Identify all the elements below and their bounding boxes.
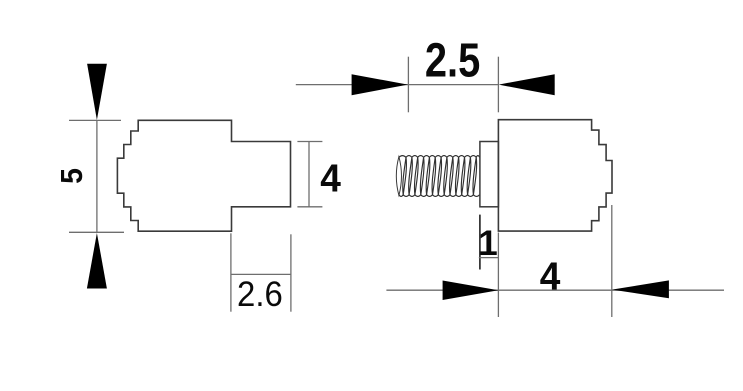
head outline (side view with knurl steps) [498, 120, 612, 231]
dimension 4 (head width) right arrow [612, 280, 669, 298]
svg-text:1: 1 [478, 224, 497, 263]
dimension 1 extension line (collar left edge) [479, 215, 481, 270]
dimension 2.6 right extension line [290, 234, 292, 311]
dimension 5 arrow top [87, 64, 107, 120]
svg-text:2.5: 2.5 [425, 34, 480, 87]
dimension 5 arrow bottom [87, 233, 107, 289]
threaded stud end face [396, 157, 401, 196]
thread crest lines [399, 156, 480, 197]
dimension 2.6 left extension line [230, 233, 232, 311]
svg-text:4: 4 [540, 255, 561, 298]
svg-text:5: 5 [55, 168, 89, 184]
dimension 4 (head width) left arrow [443, 281, 499, 301]
collar (unthreaded shoulder) outline [480, 142, 499, 207]
dimension 4 (boss height) bottom extension line [297, 206, 322, 208]
dimension 4 (boss height) top extension line [297, 141, 322, 143]
dimension 4 (boss height) dimension line [308, 142, 310, 207]
dimension 4 (head width) left extension line [497, 233, 499, 318]
dimension 4 (head width) dimension line [386, 289, 724, 291]
dimension 2.6 dimension line [231, 273, 291, 275]
dimension 5 bottom tick line [69, 231, 124, 233]
dimension 2.5 right extension line [497, 57, 499, 113]
dimension 1 dimension line [479, 257, 499, 259]
svg-text:2.6: 2.6 [237, 275, 283, 314]
dimension 2.5 dimension line with left tail [296, 84, 499, 86]
dimension 2.5 left extension line [407, 57, 409, 113]
dimension 2.5 right arrow [499, 74, 555, 95]
left view outline (front view of stepped knob with boss) [117, 120, 290, 231]
dimension 5 dimension line [96, 120, 98, 232]
dimension 4 (head width) right extension line [611, 205, 613, 317]
dimension 2.5 left arrow [352, 74, 408, 95]
dimension 5 top tick line [69, 119, 121, 121]
svg-text:4: 4 [320, 158, 341, 201]
